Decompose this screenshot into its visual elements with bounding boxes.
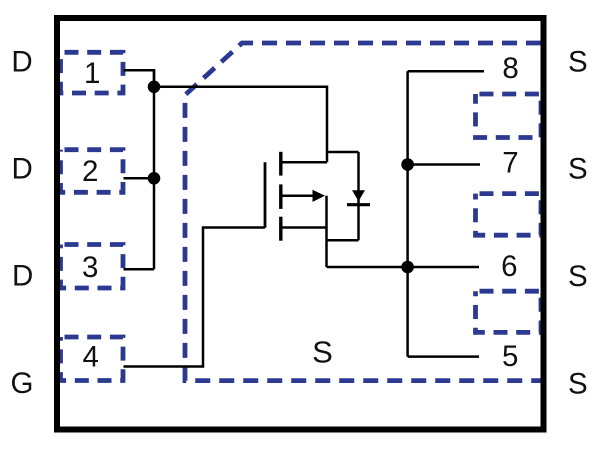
pad pin 7 area (476, 94, 542, 138)
pad pin 2 (61, 150, 124, 193)
svg-text:S: S (568, 260, 588, 293)
wire source vertical (325, 196, 328, 267)
pad pin 4 (61, 337, 124, 381)
svg-text:G: G (11, 367, 34, 400)
junction dot drain bus pin2 (148, 172, 161, 185)
junction dot pin 7 (401, 158, 414, 171)
svg-text:S: S (568, 367, 588, 400)
transistor Q1 drain lead (281, 161, 327, 164)
svg-text:7: 7 (502, 146, 518, 179)
wire pin 5 (408, 355, 479, 358)
svg-text:6: 6 (501, 250, 517, 283)
junction dot pin 6 (401, 261, 414, 274)
wire source to pin 6 (327, 266, 480, 269)
wire body diode bottom branch (327, 239, 359, 242)
wire pin 8 (408, 70, 484, 73)
package outline (57, 18, 544, 430)
die attach pad dashed outline (source pad) (185, 43, 541, 381)
transistor Q1 gate bar (264, 162, 267, 228)
pad pin 1 (61, 52, 124, 93)
wire pin4 gate lead (124, 228, 266, 367)
pad pin 3 (61, 245, 124, 289)
svg-text:1: 1 (84, 57, 100, 90)
wire drain bus vertical (153, 70, 156, 269)
wire drain bus to mosfet drain (154, 87, 327, 163)
wire source bus vertical right (406, 71, 409, 356)
svg-text:D: D (12, 260, 33, 293)
svg-text:3: 3 (82, 251, 98, 284)
wire pin 7 (408, 163, 480, 166)
wire pin3 to drain bus (124, 268, 155, 271)
svg-text:8: 8 (502, 52, 518, 85)
svg-text:D: D (12, 153, 33, 186)
svg-text:S: S (312, 335, 333, 370)
svg-text:5: 5 (502, 340, 518, 373)
svg-text:4: 4 (82, 341, 98, 374)
body diode D1 triangle (352, 190, 365, 201)
pad pin 6 area (476, 194, 542, 236)
transistor Q1 substrate arrow wire (281, 195, 314, 198)
pad pin 5 area (476, 291, 542, 332)
body diode D1 vertical (357, 152, 360, 240)
transistor Q1 channel segment middle (279, 184, 282, 209)
junction dot drain bus top (148, 81, 161, 94)
wire pin2 to drain bus (124, 177, 155, 180)
svg-text:2: 2 (82, 155, 98, 188)
svg-text:S: S (568, 45, 588, 78)
wire body diode top branch (327, 151, 359, 154)
transistor Q1 substrate arrowhead (313, 190, 326, 202)
transistor Q1 channel segment top (279, 152, 282, 176)
svg-text:D: D (11, 46, 32, 79)
svg-text:S: S (568, 153, 588, 186)
wire pin1 to drain bus (124, 70, 155, 87)
transistor Q1 channel segment bottom (279, 217, 282, 241)
body diode D1 cathode bar (347, 203, 370, 206)
transistor Q1 source lead (281, 226, 327, 229)
